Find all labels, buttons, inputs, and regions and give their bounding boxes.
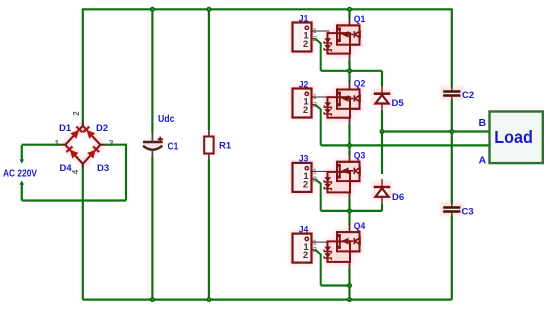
wire J4 pin2 return bbox=[315, 250, 321, 286]
wire R1 to bottom rail bbox=[208, 160, 210, 300]
pin source Q4 bbox=[349, 261, 351, 270]
svg-text:Udc: Udc bbox=[158, 114, 175, 125]
wire bridge pin3 down bbox=[100, 145, 126, 201]
wire AC+ to bridge pin1 bbox=[22, 144, 66, 146]
svg-text:J2: J2 bbox=[299, 79, 309, 90]
wire C1 to bottom rail bbox=[151, 157, 153, 300]
svg-text:C1: C1 bbox=[168, 142, 179, 153]
wire gate J2 to Q2 bbox=[315, 96, 329, 98]
svg-text:Q4: Q4 bbox=[354, 221, 366, 232]
svg-text:2: 2 bbox=[303, 39, 308, 50]
connector J1 bbox=[293, 23, 317, 52]
connector J4 bbox=[293, 234, 317, 263]
svg-text:C3: C3 bbox=[462, 207, 474, 218]
wire node2 (Q3/Q4, D6) bbox=[321, 210, 382, 212]
svg-text:D2: D2 bbox=[96, 123, 108, 134]
junction top rail / Q1 bbox=[347, 7, 352, 12]
transistor Q1 bbox=[324, 25, 360, 53]
junction J4 return bbox=[347, 283, 352, 288]
wire J2 pin2 return bbox=[315, 105, 321, 146]
svg-text:D3: D3 bbox=[97, 163, 109, 174]
svg-text:2: 2 bbox=[313, 174, 317, 183]
svg-text:4: 4 bbox=[71, 169, 80, 174]
wire DC- bottom rail bbox=[83, 299, 452, 301]
svg-text:Q2: Q2 bbox=[354, 78, 366, 89]
svg-text:Q3: Q3 bbox=[354, 151, 366, 162]
pin source Q2 bbox=[349, 117, 351, 126]
svg-text:A: A bbox=[479, 155, 487, 167]
wire bridge- to bottom rail bbox=[82, 164, 84, 300]
transistor Q3 bbox=[324, 162, 360, 193]
pin drain Q1 bbox=[349, 17, 351, 26]
load block "Load" bbox=[490, 112, 543, 164]
svg-text:Q1: Q1 bbox=[354, 14, 366, 25]
wire J1 pin2 return bbox=[315, 39, 321, 71]
svg-text:3: 3 bbox=[109, 138, 114, 148]
svg-text:2: 2 bbox=[303, 105, 308, 116]
svg-text:B: B bbox=[479, 117, 487, 129]
junction node A bbox=[347, 143, 352, 148]
wire source Q3 bbox=[348, 199, 350, 211]
connector J3 bbox=[293, 163, 317, 192]
diode D4 (bridge) bbox=[65, 145, 83, 164]
junction top rail / C1 bbox=[150, 7, 155, 12]
svg-text:J4: J4 bbox=[299, 224, 309, 235]
wire gate J1 to Q1 bbox=[315, 30, 329, 32]
svg-text:C2: C2 bbox=[462, 90, 474, 101]
diode D5 bbox=[374, 86, 390, 111]
wire D6 to node2 bbox=[381, 204, 383, 211]
pin source Q1 bbox=[349, 53, 351, 62]
svg-text:D1: D1 bbox=[59, 123, 72, 134]
connector J2 bbox=[293, 89, 317, 118]
svg-text:2: 2 bbox=[303, 250, 308, 261]
wire node B to load bbox=[382, 130, 490, 132]
pin drain Q3 bbox=[349, 154, 351, 163]
junction top rail / R1 bbox=[206, 7, 211, 12]
wire D5 to D6 (neutral) bbox=[381, 111, 383, 175]
diode D1 (bridge) bbox=[65, 126, 83, 145]
capacitor C3 bbox=[443, 204, 460, 216]
wire source Q2 bbox=[348, 125, 350, 146]
junction bottom rail / C1 bbox=[150, 297, 155, 302]
wire drain Q2 bbox=[348, 71, 350, 83]
wire node1 (Q1/Q2, D5) bbox=[321, 70, 382, 72]
wire J3 pin2 return bbox=[315, 179, 321, 211]
junction node1 bbox=[347, 68, 352, 73]
capacitor C1 (electrolytic, Udc bus) bbox=[143, 132, 163, 158]
junction bottom rail / Q4 bbox=[347, 297, 352, 302]
svg-text:2: 2 bbox=[313, 34, 317, 43]
diode D3 (bridge) bbox=[83, 145, 101, 164]
svg-text:2: 2 bbox=[313, 245, 317, 254]
wire gate J4 to Q4 bbox=[315, 241, 329, 243]
junction node B / cap leg bbox=[449, 129, 454, 134]
wire top rail to C1 bbox=[151, 9, 153, 133]
wire drain Q4 bbox=[348, 211, 350, 225]
junction node B / diode leg bbox=[380, 129, 385, 134]
svg-text:2: 2 bbox=[313, 100, 317, 109]
halo underlay (decorative) bbox=[65, 23, 461, 263]
wire drain Q1 bbox=[348, 9, 350, 18]
svg-text:R1: R1 bbox=[219, 141, 232, 152]
svg-text:1: 1 bbox=[55, 138, 60, 148]
wire source Q1 bbox=[348, 61, 350, 71]
pin drain Q4 bbox=[349, 224, 351, 233]
wire top rail to R1 bbox=[208, 9, 210, 130]
wire C2 to C3 branch bbox=[451, 100, 453, 204]
svg-text:D6: D6 bbox=[392, 192, 404, 203]
svg-text:J1: J1 bbox=[299, 13, 309, 24]
wire drain Q3 bbox=[348, 145, 350, 154]
wire C3 to bottom rail bbox=[451, 216, 453, 300]
pin drain Q2 bbox=[349, 82, 351, 91]
AC source V1 AC 220V bbox=[3, 145, 37, 201]
wire J4 return join bbox=[321, 284, 350, 286]
capacitor C2 bbox=[443, 88, 460, 100]
junction bottom rail / R1 bbox=[206, 297, 211, 302]
svg-text:2: 2 bbox=[72, 111, 81, 116]
diode D6 bbox=[374, 179, 390, 204]
transistor Q2 bbox=[324, 90, 360, 118]
diode D2 (bridge) bbox=[83, 126, 101, 145]
wire AC- bottom bbox=[22, 199, 126, 201]
wire node A to load bbox=[321, 144, 490, 146]
wire DC+ top rail bbox=[83, 9, 452, 126]
junction node2 bbox=[347, 208, 352, 213]
wire gate J3 to Q3 bbox=[315, 170, 329, 172]
pin source Q3 bbox=[349, 191, 351, 200]
svg-text:AC 220V: AC 220V bbox=[3, 169, 37, 180]
svg-text:D5: D5 bbox=[392, 98, 405, 109]
svg-text:Load: Load bbox=[494, 127, 533, 147]
wire source Q4 bbox=[348, 269, 350, 286]
svg-text:2: 2 bbox=[303, 180, 308, 191]
transistor Q4 bbox=[324, 232, 360, 262]
wire Q4 source to bottom rail bbox=[348, 286, 350, 300]
svg-text:J3: J3 bbox=[299, 154, 309, 165]
wire node1 to D5 bbox=[381, 71, 383, 86]
resistor R1 bbox=[204, 137, 213, 154]
bridge pin stubs bbox=[61, 121, 105, 168]
